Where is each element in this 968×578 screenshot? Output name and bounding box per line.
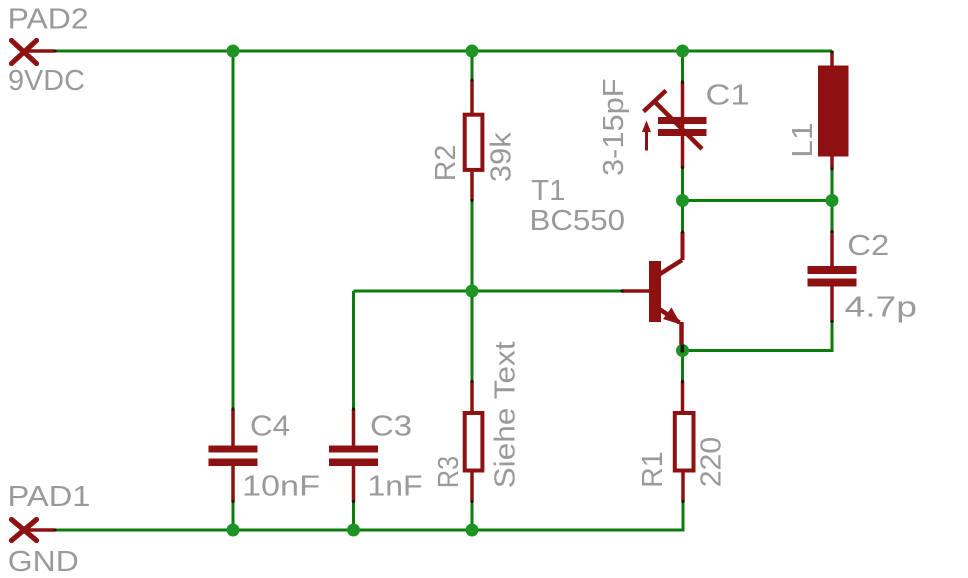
svg-text:L1: L1 — [787, 122, 819, 158]
svg-text:C4: C4 — [250, 411, 290, 443]
svg-text:PAD1: PAD1 — [8, 481, 91, 513]
svg-text:220: 220 — [696, 437, 728, 488]
svg-text:BC550: BC550 — [530, 205, 626, 237]
svg-text:GND: GND — [8, 546, 79, 578]
svg-text:9VDC: 9VDC — [8, 65, 85, 97]
svg-text:R3: R3 — [433, 456, 465, 489]
svg-text:R2: R2 — [430, 145, 462, 182]
svg-text:39k: 39k — [485, 132, 517, 183]
svg-text:3-15pF: 3-15pF — [598, 78, 630, 176]
svg-text:R1: R1 — [637, 451, 669, 488]
svg-text:C2: C2 — [847, 230, 889, 262]
svg-text:C3: C3 — [370, 411, 412, 443]
svg-text:4.7p: 4.7p — [845, 292, 918, 324]
svg-text:PAD2: PAD2 — [8, 4, 89, 36]
svg-text:T1: T1 — [531, 175, 565, 207]
svg-text:10nF: 10nF — [242, 471, 320, 503]
svg-text:Siehe Text: Siehe Text — [490, 341, 522, 488]
svg-text:1nF: 1nF — [368, 471, 423, 503]
svg-text:C1: C1 — [706, 80, 750, 112]
